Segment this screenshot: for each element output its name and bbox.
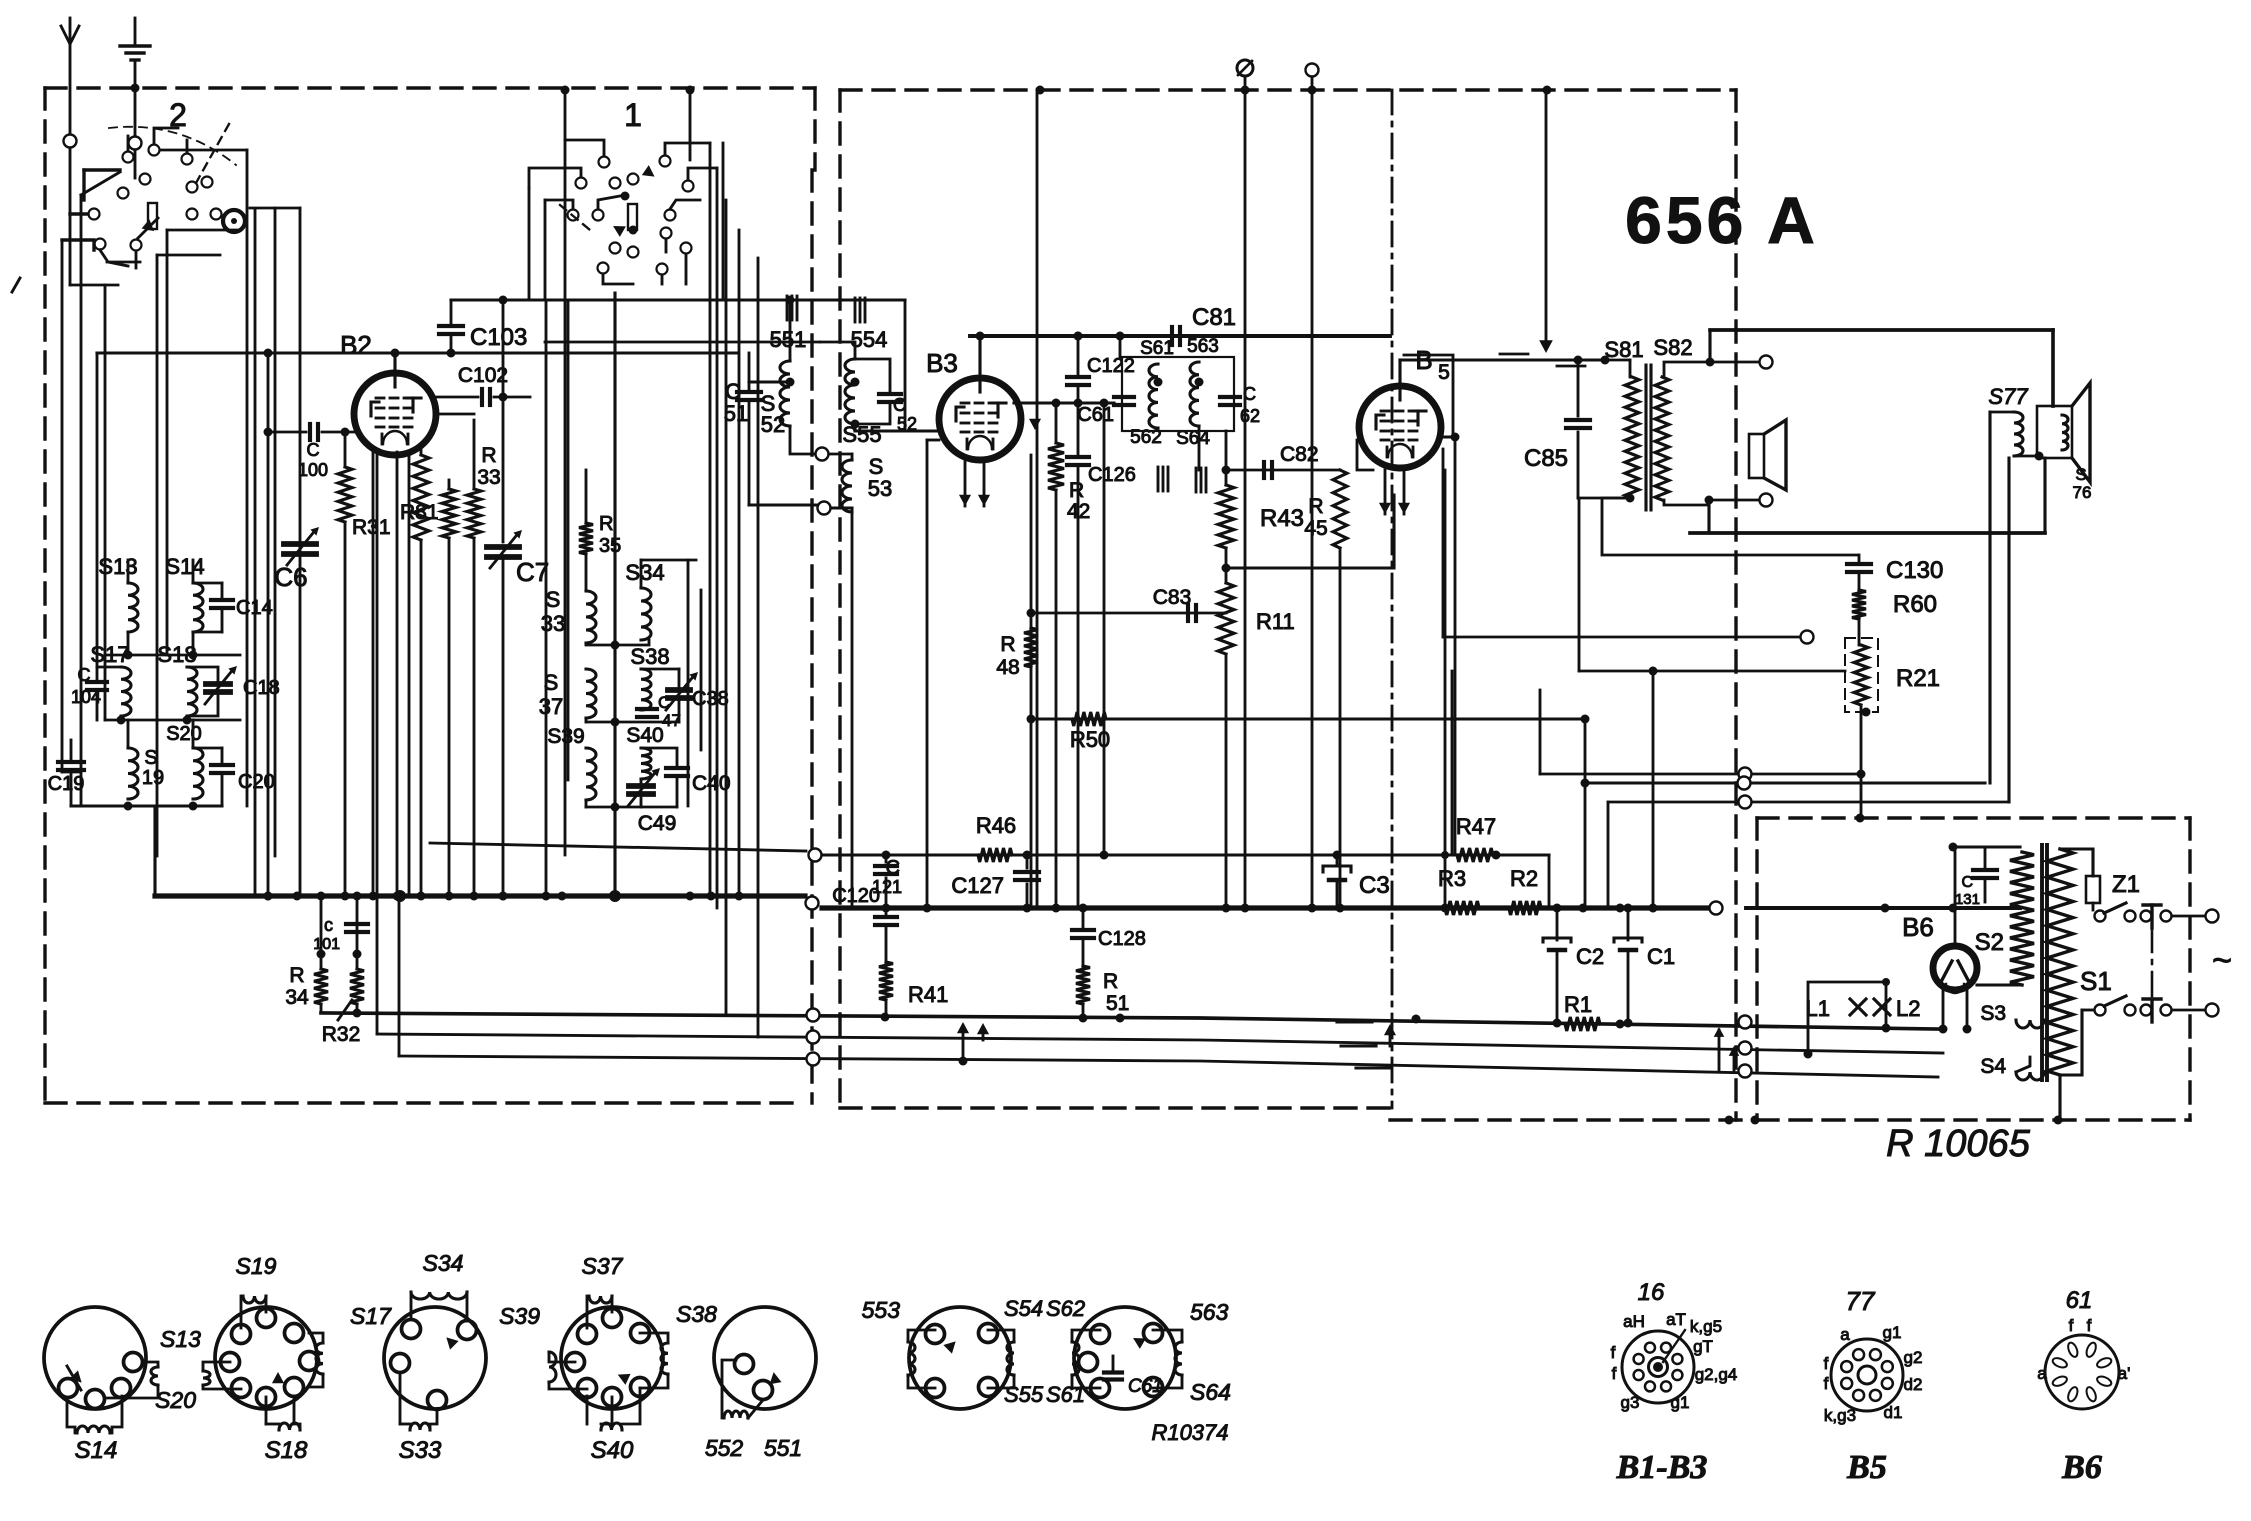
- svg-text:48: 48: [996, 656, 1019, 679]
- svg-text:C40: C40: [692, 772, 731, 795]
- svg-text:B1-B3: B1-B3: [1616, 1449, 1708, 1486]
- svg-text:C61: C61: [1128, 1376, 1163, 1397]
- svg-text:C81: C81: [1192, 304, 1236, 331]
- svg-text:R31: R31: [352, 516, 391, 539]
- svg-text:L1: L1: [1806, 996, 1830, 1021]
- svg-text:R50: R50: [1070, 727, 1110, 752]
- svg-text:a': a': [2118, 1364, 2131, 1383]
- svg-text:S77: S77: [1988, 384, 2028, 409]
- svg-text:551: 551: [764, 1435, 802, 1461]
- svg-text:61: 61: [2066, 1287, 2093, 1314]
- svg-text:S14: S14: [75, 1437, 118, 1464]
- svg-text:R81: R81: [400, 501, 439, 524]
- svg-text:g2: g2: [1904, 1348, 1923, 1367]
- svg-text:c: c: [324, 915, 333, 935]
- svg-text:S38: S38: [676, 1301, 717, 1327]
- svg-text:R21: R21: [1896, 665, 1940, 692]
- svg-text:33: 33: [477, 466, 500, 489]
- svg-text:R: R: [1103, 970, 1118, 993]
- svg-text:R47: R47: [1456, 814, 1496, 839]
- svg-text:R3: R3: [1438, 866, 1466, 891]
- svg-text:B5: B5: [1846, 1449, 1887, 1486]
- svg-text:f: f: [1612, 1364, 1617, 1383]
- svg-text:100: 100: [298, 460, 328, 480]
- svg-text:76: 76: [2073, 483, 2092, 502]
- svg-text:S38: S38: [630, 644, 669, 669]
- svg-text:gT: gT: [1693, 1337, 1713, 1356]
- svg-text:R2: R2: [1510, 866, 1538, 891]
- svg-text:Z1: Z1: [2112, 871, 2140, 898]
- svg-text:S17: S17: [350, 1303, 392, 1329]
- svg-text:C102: C102: [458, 364, 508, 387]
- svg-text:S81: S81: [1604, 337, 1643, 362]
- svg-text:C122: C122: [1087, 355, 1135, 377]
- svg-text:562: 562: [1130, 427, 1162, 448]
- svg-text:S18: S18: [157, 642, 196, 667]
- svg-text:S64: S64: [1190, 1379, 1231, 1405]
- svg-text:S55: S55: [842, 422, 881, 447]
- svg-text:S61: S61: [1046, 1382, 1085, 1407]
- svg-text:C83: C83: [1153, 586, 1192, 609]
- svg-text:f: f: [2087, 1316, 2092, 1335]
- svg-text:L2: L2: [1896, 996, 1920, 1021]
- svg-text:S14: S14: [165, 554, 204, 579]
- svg-text:R: R: [599, 513, 613, 535]
- svg-text:C: C: [886, 857, 900, 879]
- svg-text:~: ~: [2212, 942, 2232, 980]
- svg-text:19: 19: [142, 767, 164, 789]
- svg-text:C85: C85: [1524, 445, 1568, 472]
- svg-text:S: S: [144, 747, 157, 769]
- svg-text:C38: C38: [692, 688, 729, 710]
- svg-text:B6: B6: [2061, 1449, 2102, 1486]
- svg-text:aH: aH: [1623, 1312, 1645, 1331]
- svg-text:g2,g4: g2,g4: [1695, 1365, 1738, 1384]
- svg-text:R41: R41: [908, 982, 948, 1007]
- svg-text:B6: B6: [1902, 912, 1934, 942]
- svg-text:f: f: [1824, 1354, 1829, 1373]
- svg-text:S: S: [546, 587, 561, 612]
- svg-text:5: 5: [1438, 361, 1450, 384]
- svg-text:51: 51: [724, 401, 748, 426]
- svg-text:S34: S34: [625, 560, 664, 585]
- svg-text:C: C: [893, 395, 906, 415]
- svg-text:S54: S54: [1004, 1296, 1043, 1321]
- svg-text:C49: C49: [638, 812, 677, 835]
- svg-text:C127: C127: [951, 873, 1004, 898]
- svg-text:C128: C128: [1098, 928, 1146, 950]
- svg-text:52: 52: [761, 412, 785, 437]
- svg-text:R10374: R10374: [1151, 1420, 1228, 1445]
- svg-text:C: C: [1961, 874, 1973, 891]
- svg-text:R: R: [1000, 633, 1015, 656]
- svg-text:S18: S18: [265, 1437, 308, 1464]
- svg-text:S34: S34: [423, 1250, 464, 1276]
- svg-text:f: f: [1824, 1374, 1829, 1393]
- svg-text:553: 553: [862, 1297, 901, 1323]
- svg-text:C6: C6: [274, 562, 307, 592]
- svg-text:a: a: [2037, 1364, 2047, 1383]
- svg-text:C19: C19: [48, 773, 85, 795]
- svg-text:S64: S64: [1176, 428, 1210, 449]
- svg-text:C3: C3: [1359, 872, 1390, 899]
- svg-text:C2: C2: [1576, 944, 1604, 969]
- svg-text:77: 77: [1846, 1286, 1876, 1316]
- svg-text:C: C: [307, 440, 320, 460]
- svg-text:16: 16: [1638, 1279, 1665, 1306]
- svg-text:656 A: 656 A: [1625, 183, 1819, 257]
- svg-text:131: 131: [1955, 891, 1980, 908]
- svg-text:R32: R32: [322, 1023, 361, 1046]
- svg-text:R43: R43: [1260, 505, 1304, 532]
- svg-text:S55: S55: [1004, 1382, 1044, 1407]
- svg-text:S13: S13: [160, 1326, 201, 1352]
- svg-text:34: 34: [285, 986, 309, 1009]
- svg-text:R46: R46: [976, 813, 1016, 838]
- svg-text:g1: g1: [1883, 1323, 1902, 1342]
- svg-text:33: 33: [541, 611, 565, 636]
- svg-text:S82: S82: [1653, 335, 1692, 360]
- svg-text:S61: S61: [1140, 338, 1174, 359]
- svg-text:S39: S39: [547, 725, 584, 748]
- svg-text:C1: C1: [1647, 944, 1675, 969]
- svg-text:S62: S62: [1046, 1296, 1085, 1321]
- svg-text:R: R: [481, 444, 496, 467]
- svg-text:1: 1: [624, 97, 642, 133]
- svg-text:101: 101: [313, 936, 340, 953]
- svg-text:C126: C126: [1088, 464, 1136, 486]
- svg-text:104: 104: [71, 687, 101, 707]
- svg-text:51: 51: [1106, 992, 1129, 1015]
- svg-text:g1: g1: [1671, 1393, 1690, 1412]
- svg-text:551: 551: [770, 327, 807, 352]
- svg-text:B2: B2: [340, 330, 372, 360]
- svg-text:a: a: [1840, 1325, 1850, 1344]
- svg-text:B3: B3: [926, 348, 958, 378]
- svg-text:S: S: [2075, 465, 2086, 484]
- svg-text:S13: S13: [98, 554, 137, 579]
- svg-text:f: f: [1611, 1343, 1616, 1362]
- svg-text:S20: S20: [166, 723, 202, 745]
- svg-text:R11: R11: [1256, 609, 1295, 634]
- svg-text:S2: S2: [1975, 929, 2004, 956]
- svg-text:d2: d2: [1904, 1375, 1923, 1394]
- svg-text:S39: S39: [499, 1303, 540, 1329]
- svg-text:35: 35: [599, 535, 621, 557]
- svg-text:S3: S3: [1980, 1002, 2006, 1025]
- svg-text:S20: S20: [155, 1387, 196, 1413]
- svg-text:S1: S1: [2080, 966, 2112, 996]
- svg-text:R: R: [289, 964, 304, 987]
- svg-text:S4: S4: [1980, 1055, 2006, 1078]
- svg-text:k,g5: k,g5: [1690, 1317, 1722, 1336]
- svg-text:f: f: [2069, 1316, 2074, 1335]
- svg-text:C: C: [78, 665, 91, 685]
- svg-text:53: 53: [868, 476, 892, 501]
- svg-text:C103: C103: [470, 324, 527, 351]
- svg-text:563: 563: [1187, 336, 1219, 357]
- svg-text:R 10065: R 10065: [1886, 1123, 2031, 1165]
- svg-text:563: 563: [1190, 1299, 1229, 1325]
- svg-text:45: 45: [1304, 517, 1327, 540]
- svg-text:37: 37: [539, 694, 563, 719]
- svg-text:C120: C120: [832, 885, 880, 907]
- svg-text:62: 62: [1240, 406, 1260, 426]
- svg-text:k,g3: k,g3: [1824, 1406, 1856, 1425]
- svg-text:R1: R1: [1564, 992, 1592, 1017]
- svg-text:R60: R60: [1893, 591, 1937, 618]
- svg-text:d1: d1: [1884, 1403, 1903, 1422]
- svg-text:C61: C61: [1077, 404, 1114, 426]
- svg-text:S37: S37: [582, 1253, 624, 1279]
- svg-text:S33: S33: [399, 1437, 442, 1464]
- svg-text:C18: C18: [243, 677, 280, 699]
- svg-text:g3: g3: [1621, 1393, 1640, 1412]
- svg-text:552: 552: [705, 1435, 744, 1461]
- svg-text:C130: C130: [1886, 557, 1943, 584]
- svg-text:S19: S19: [236, 1253, 277, 1279]
- svg-text:aT: aT: [1666, 1310, 1686, 1329]
- svg-text:S40: S40: [591, 1437, 634, 1464]
- svg-text:C7: C7: [516, 557, 549, 587]
- svg-text:S40: S40: [626, 724, 663, 747]
